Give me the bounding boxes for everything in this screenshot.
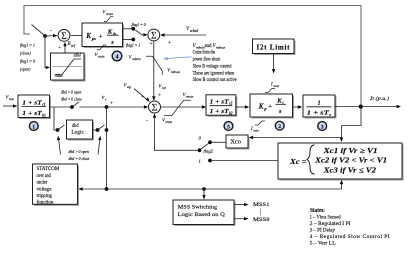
svg-text:K: K bbox=[107, 28, 113, 35]
svg-text:5 – Verr LL: 5 – Verr LL bbox=[310, 241, 337, 247]
svg-text:dbd: dbd bbox=[72, 123, 79, 129]
svg-text:refmax: refmax bbox=[171, 70, 181, 74]
svg-text:voltage: voltage bbox=[37, 186, 53, 192]
wire node A down to deadband bbox=[45, 36, 47, 68]
deadband axis bbox=[53, 66, 83, 68]
block I2t Limit bbox=[253, 39, 295, 54]
svg-text:4: 4 bbox=[116, 54, 119, 60]
svg-text:1 + sT: 1 + sT bbox=[210, 109, 229, 115]
svg-text:2: 2 bbox=[278, 124, 281, 130]
svg-text:MSS1: MSS1 bbox=[253, 202, 270, 208]
svg-text:MSS Switching: MSS Switching bbox=[178, 205, 218, 211]
svg-text:rmin: rmin bbox=[98, 55, 105, 59]
block dbd Logic shadow bbox=[68, 122, 94, 141]
deadband block bbox=[51, 53, 85, 80]
wire B_ref deadband to S1 bbox=[64, 45, 66, 54]
svg-text:4 – Regulated Slow Control PI: 4 – Regulated Slow Control PI bbox=[310, 234, 390, 240]
svg-text:+: + bbox=[158, 93, 161, 99]
block STATCOM trip bbox=[33, 164, 78, 204]
svg-text:c2: c2 bbox=[229, 102, 233, 106]
switch dbd logic left bbox=[56, 128, 60, 132]
svg-text:sig: sig bbox=[127, 85, 131, 89]
wire S3 out bbox=[161, 106, 204, 108]
svg-text:+: + bbox=[99, 33, 103, 40]
state badge 4 bbox=[112, 51, 122, 61]
svg-text:emin: emin bbox=[166, 120, 173, 124]
wire V_sig input bbox=[134, 89, 148, 101]
svg-text:ldbd: ldbd bbox=[74, 52, 82, 57]
node contact 0 bbox=[208, 140, 212, 144]
svg-text:flag1 = 0: flag1 = 0 bbox=[132, 23, 146, 27]
wire bottom bus bbox=[81, 188, 342, 190]
block lag1 shadow bbox=[20, 97, 52, 120]
arrow into STATCOM box bbox=[78, 187, 82, 190]
block Kps + Kis/s shadow bbox=[84, 25, 125, 49]
svg-text:+: + bbox=[150, 41, 153, 47]
wire I2t down to Imax bbox=[273, 54, 275, 71]
wire PI to delay bbox=[293, 106, 300, 108]
wire flag2 to S3 bottom bbox=[155, 116, 199, 151]
svg-text:1 + sT: 1 + sT bbox=[22, 111, 42, 117]
svg-text:ps: ps bbox=[91, 36, 96, 41]
block dbd Logic bbox=[67, 120, 93, 139]
svg-text:+: + bbox=[141, 94, 144, 100]
svg-text:Xc3 if Vr ≤ V2: Xc3 if Vr ≤ V2 bbox=[322, 165, 376, 174]
op summer S2 bbox=[148, 29, 160, 41]
svg-text:bus: bus bbox=[9, 97, 14, 101]
svg-text:over and: over and bbox=[37, 173, 52, 179]
wire top feedback loop from It to flag1 switch bbox=[24, 6, 361, 107]
block MSS Switching Logic bbox=[173, 200, 234, 225]
svg-text:and: and bbox=[205, 44, 213, 49]
switch flag1 (top-left) bbox=[32, 25, 46, 36]
wire lag2 to PI bbox=[236, 106, 247, 108]
svg-text:STATCOM: STATCOM bbox=[37, 166, 60, 172]
wire bus riser to Xc bottom bbox=[341, 183, 343, 190]
svg-text:flag2: flag2 bbox=[204, 149, 214, 154]
node Vr bbox=[105, 105, 109, 109]
svg-text:c1: c1 bbox=[42, 103, 46, 107]
svg-text:1 – Vbus Sensed: 1 – Vbus Sensed bbox=[310, 215, 341, 221]
svg-text:max: max bbox=[274, 84, 280, 88]
svg-text:1: 1 bbox=[199, 159, 201, 164]
svg-text:-: - bbox=[146, 118, 148, 124]
svg-text:s: s bbox=[278, 108, 282, 115]
wire lag1 out to dbd switch bbox=[50, 106, 72, 108]
svg-text:min: min bbox=[254, 129, 259, 133]
block I2t Limit shadow bbox=[254, 41, 296, 56]
block Xc shadow bbox=[280, 145, 404, 181]
svg-text:-: - bbox=[50, 29, 52, 35]
svg-text:dbd = 0 close: dbd = 0 close bbox=[61, 98, 82, 102]
svg-text:+: + bbox=[110, 101, 113, 107]
deadband block shadow bbox=[52, 55, 86, 82]
block Kps + Kis/s bbox=[82, 23, 123, 47]
svg-text:(open): (open) bbox=[20, 67, 31, 72]
svg-text:refmin: refmin bbox=[196, 46, 205, 50]
state badge 5 bbox=[224, 122, 233, 131]
wire MSS1 out bbox=[234, 204, 246, 206]
svg-text:Σ: Σ bbox=[61, 32, 67, 42]
switch flag1 contacts after PI block bbox=[123, 28, 132, 30]
svg-text:emax: emax bbox=[186, 94, 194, 98]
svg-text:3: 3 bbox=[321, 124, 324, 130]
svg-text:refmin: refmin bbox=[132, 57, 141, 61]
block delay shadow bbox=[305, 97, 337, 119]
svg-text:b2: b2 bbox=[229, 112, 233, 116]
node It bbox=[359, 105, 363, 109]
switch flag2 bbox=[198, 148, 202, 152]
block Xc definition bbox=[278, 143, 402, 179]
block STATCOM shadow bbox=[34, 166, 79, 206]
svg-text:b1: b1 bbox=[42, 113, 46, 117]
wire branch to Xco bbox=[252, 137, 342, 139]
svg-text:Logic Based on Q: Logic Based on Q bbox=[178, 212, 225, 218]
wire Xco out to contact 0 bbox=[210, 141, 226, 143]
svg-text:Come from the: Come from the bbox=[193, 51, 216, 56]
svg-text:+: + bbox=[268, 103, 272, 110]
wire V_sched input bbox=[163, 34, 206, 36]
block MSS shadow bbox=[175, 202, 236, 227]
block Kp+Ki/s shadow bbox=[252, 96, 295, 119]
svg-text:under: under bbox=[37, 180, 48, 186]
switch dbd (top) bbox=[70, 105, 74, 109]
op summer S3 bbox=[149, 101, 161, 113]
svg-text:refmax: refmax bbox=[216, 46, 226, 50]
wire branch down from dbd logic input bbox=[54, 107, 56, 130]
svg-text:States:: States: bbox=[310, 208, 325, 214]
svg-text:Xc =: Xc = bbox=[289, 157, 307, 166]
svg-text:Xco: Xco bbox=[230, 138, 241, 145]
svg-text:flag1 = 0: flag1 = 0 bbox=[20, 59, 35, 64]
state badge 2 bbox=[275, 121, 284, 130]
svg-text:I2t Limit: I2t Limit bbox=[257, 44, 291, 52]
svg-text:sched: sched bbox=[190, 29, 198, 33]
deadband curve bbox=[55, 59, 81, 75]
svg-text:+: + bbox=[168, 40, 171, 46]
svg-text:-ldbd: -ldbd bbox=[54, 73, 63, 78]
wire S2 down to S3 (V_ref) bbox=[153, 41, 155, 99]
svg-text:is: is bbox=[113, 31, 116, 36]
svg-text:rmax: rmax bbox=[106, 12, 113, 16]
svg-text:Xc1 if Vr ≥ V1: Xc1 if Vr ≥ V1 bbox=[322, 146, 377, 155]
wire It feedback down-step to Xc bbox=[342, 107, 362, 140]
svg-text:power flow shunt: power flow shunt bbox=[193, 57, 221, 62]
wire V_bus arrow bbox=[3, 105, 15, 107]
svg-text:tripping: tripping bbox=[37, 193, 53, 199]
svg-text:function: function bbox=[37, 199, 54, 206]
svg-text:1: 1 bbox=[317, 99, 320, 106]
state badge 1 bbox=[29, 122, 38, 131]
svg-text:1 + sT: 1 + sT bbox=[307, 111, 329, 117]
svg-text:flag1 = 1: flag1 = 1 bbox=[126, 44, 140, 48]
node bus to MSS bbox=[202, 187, 206, 191]
note blue arrow bbox=[166, 57, 192, 59]
block Xco bbox=[226, 135, 248, 148]
svg-text:s: s bbox=[110, 39, 114, 46]
svg-text:5: 5 bbox=[227, 124, 230, 130]
connector MSS1..MSS8 bbox=[260, 208, 262, 215]
svg-text:1 + sT: 1 + sT bbox=[22, 100, 42, 106]
node on bus bbox=[105, 187, 109, 191]
svg-text:(close): (close) bbox=[20, 51, 32, 56]
svg-text:Slow B voltage control: Slow B voltage control bbox=[193, 64, 232, 69]
wire S1 to PI block bbox=[71, 35, 82, 37]
block Xco shadow bbox=[228, 137, 250, 150]
svg-text:1: 1 bbox=[32, 124, 35, 130]
label V_emax with tick bbox=[164, 100, 191, 115]
block 1+sTc2/1+sTb2 bbox=[206, 95, 236, 115]
wire delay out to It bbox=[335, 106, 398, 108]
op summer S1 bbox=[58, 30, 70, 42]
svg-text:3 – PI Delay: 3 – PI Delay bbox=[310, 228, 336, 234]
node junction A bbox=[43, 34, 47, 38]
block Kp + Ki/s bbox=[250, 94, 293, 117]
wire MSS8 out bbox=[234, 218, 246, 220]
svg-text:K: K bbox=[276, 98, 282, 105]
svg-text:1 + sT: 1 + sT bbox=[210, 99, 229, 105]
svg-text:flag1 = 1: flag1 = 1 bbox=[20, 43, 35, 48]
annotation arrow right bbox=[98, 139, 100, 155]
svg-text:It (p.u.): It (p.u.) bbox=[369, 95, 389, 102]
svg-text:These are ignored when: These are ignored when bbox=[193, 71, 235, 76]
wire Vr to S3 bbox=[107, 106, 146, 108]
block 1+sTc1/1+sTb1 bbox=[18, 95, 50, 118]
svg-text:2 – Regulated I PI: 2 – Regulated I PI bbox=[310, 221, 351, 227]
svg-text:dbd > 0 open: dbd > 0 open bbox=[61, 91, 81, 95]
wire Vr drop to bus bbox=[106, 107, 108, 189]
block 1/(1+sTe) bbox=[303, 95, 335, 117]
svg-text:MSS8: MSS8 bbox=[253, 217, 270, 223]
wire to node Vr bbox=[80, 106, 107, 108]
node contact 1 bbox=[208, 159, 212, 163]
switch dbd logic right bbox=[94, 129, 97, 131]
wire down to MSS box bbox=[203, 189, 205, 197]
svg-text:+: + bbox=[58, 45, 61, 51]
svg-text:Logic: Logic bbox=[71, 129, 84, 135]
svg-text:Σ: Σ bbox=[152, 104, 158, 114]
block lag2 shadow bbox=[208, 96, 238, 116]
svg-text:dbd > 0 open: dbd > 0 open bbox=[69, 150, 89, 154]
annotation arrow left bbox=[59, 139, 61, 155]
svg-text:dbd = 0 close: dbd = 0 close bbox=[69, 157, 90, 161]
wire into summer S1 bbox=[45, 35, 55, 37]
svg-text:Xc2 if V2 < Vr < V1: Xc2 if V2 < Vr < V1 bbox=[314, 156, 387, 165]
svg-text:Slow B control not active: Slow B control not active bbox=[193, 78, 237, 83]
wire contact 1 to Xc box bbox=[210, 160, 278, 162]
state badge 3 bbox=[318, 122, 327, 131]
